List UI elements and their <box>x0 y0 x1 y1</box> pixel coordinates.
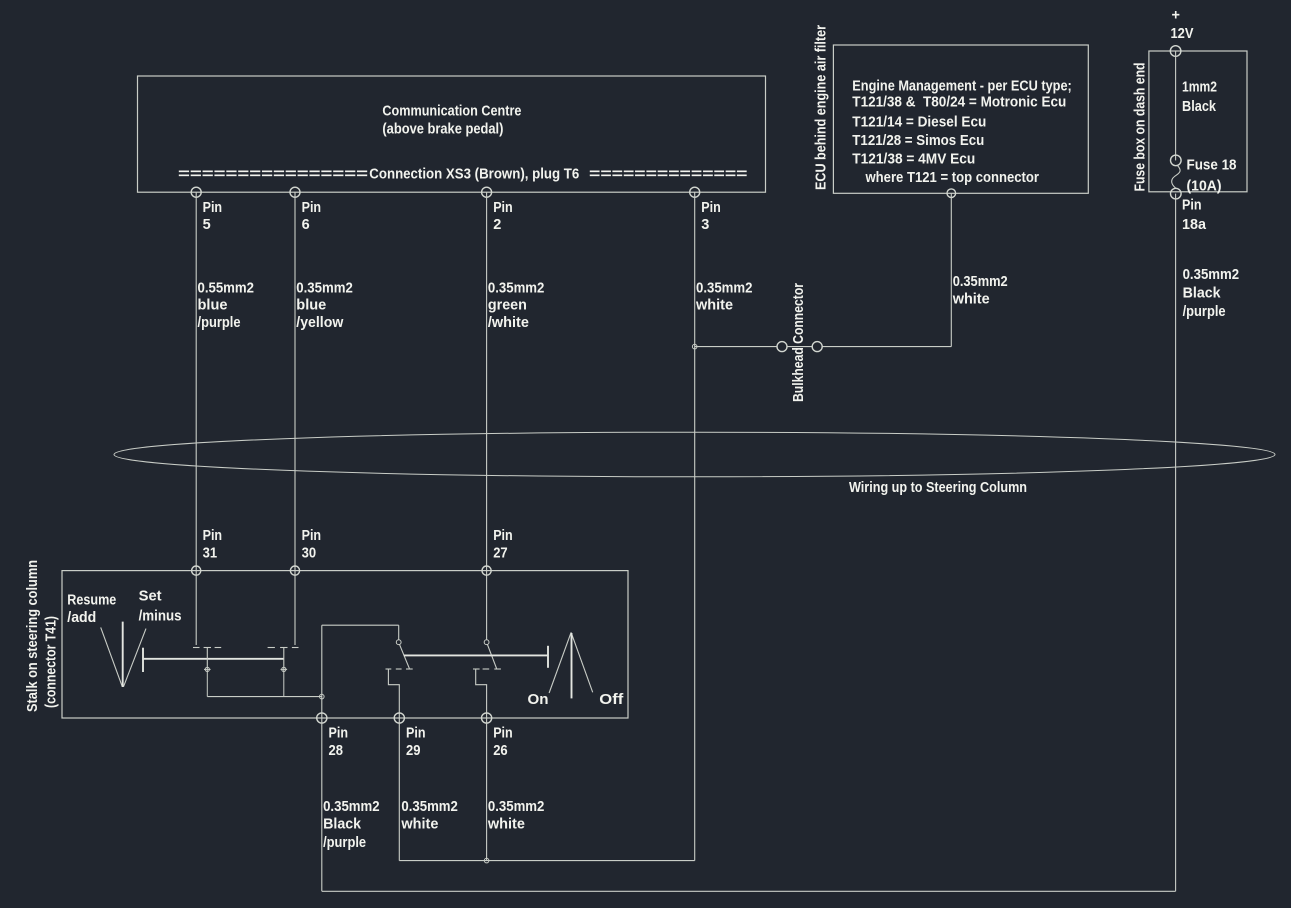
wire30 end cap <box>292 647 299 649</box>
bottom wire pin29 to pin3 <box>399 860 694 862</box>
pin 3 connector circle <box>690 187 700 197</box>
svg-text:/purple: /purple <box>323 835 366 851</box>
right switch plate end bar <box>547 646 549 668</box>
wire31 end cap <box>193 647 200 649</box>
svg-text:where T121 = top connector: where T121 = top connector <box>865 170 1040 186</box>
Communication Centre box <box>138 76 766 192</box>
svg-text:Off: Off <box>599 692 623 708</box>
svg-text:0.55mm2: 0.55mm2 <box>198 280 255 296</box>
svg-text:T121/28 = Simos Ecu: T121/28 = Simos Ecu <box>852 133 984 149</box>
On Off lever <box>549 632 571 693</box>
svg-text:T121/14 = Diesel Ecu: T121/14 = Diesel Ecu <box>852 115 986 131</box>
svg-text:Pin: Pin <box>493 726 513 742</box>
pin 29 connector circle <box>394 713 404 723</box>
svg-text:(connector T41): (connector T41) <box>44 616 60 708</box>
pin 26 connector circle <box>482 713 492 723</box>
12V supply connector circle <box>1170 46 1181 57</box>
wire pin26 down <box>486 718 488 861</box>
svg-text:/purple: /purple <box>198 315 241 331</box>
svg-text:On: On <box>528 692 549 708</box>
wire pin2 to pin27 <box>486 192 488 640</box>
contact post 2 cap <box>280 647 287 649</box>
hook wire to pin26 <box>476 669 487 718</box>
svg-text:Pin: Pin <box>329 726 349 742</box>
pin 6 connector circle <box>290 187 300 197</box>
svg-text:Pin: Pin <box>203 528 223 544</box>
right switch top wire <box>322 624 399 626</box>
svg-text:Pin: Pin <box>701 200 721 216</box>
svg-text:/white: /white <box>488 315 529 331</box>
junction node pin3/bulkhead <box>692 344 697 349</box>
svg-text:T121/38 = 4MV Ecu: T121/38 = 4MV Ecu <box>852 152 975 168</box>
contact post 2 <box>283 648 285 667</box>
pin 5 connector circle <box>191 187 201 197</box>
stalk switch box <box>62 571 628 718</box>
svg-text:Black: Black <box>323 817 362 833</box>
contact dash b <box>268 647 275 649</box>
pin 27 connector circle <box>482 566 491 575</box>
svg-text:5: 5 <box>203 217 211 233</box>
left switch plate end bar <box>142 648 144 672</box>
wire junction up to right switch <box>321 625 323 696</box>
right contact dash b2 <box>483 668 490 670</box>
pin 2 connector circle <box>482 187 492 197</box>
svg-text:blue: blue <box>296 298 326 314</box>
svg-text:green: green <box>488 298 527 314</box>
svg-text:Bulkhead Connector: Bulkhead Connector <box>791 283 807 402</box>
wire 12V to fuse <box>1175 51 1177 160</box>
svg-text:Black: Black <box>1183 286 1222 302</box>
fuse F18 symbol <box>1171 155 1182 166</box>
svg-text:Pin: Pin <box>493 200 513 216</box>
contact post 1 <box>206 648 208 667</box>
svg-text:26: 26 <box>493 743 508 759</box>
Fuse box on dash end rectangle <box>1149 51 1247 192</box>
svg-text:T121/38 & T80/24 = Motronic E: T121/38 & T80/24 = Motronic Ecu <box>852 95 1066 111</box>
junction node pin28 <box>320 694 325 699</box>
right contact dash a1 <box>386 668 392 670</box>
pivot circle 2 (pin 27) <box>484 640 489 645</box>
svg-text:/yellow: /yellow <box>296 315 344 331</box>
svg-text:/add: /add <box>67 610 96 626</box>
svg-text:2: 2 <box>493 217 501 233</box>
svg-text:/minus: /minus <box>139 608 182 624</box>
switch blade 2 <box>487 644 496 668</box>
svg-text:3: 3 <box>701 217 709 233</box>
svg-text:1mm2: 1mm2 <box>1182 79 1217 95</box>
svg-text:Pin: Pin <box>1182 198 1202 214</box>
EM box bottom connector circle <box>947 189 956 198</box>
contact circle 2 <box>281 667 288 697</box>
wire EM down to bulkhead <box>950 193 952 346</box>
svg-text:28: 28 <box>329 743 344 759</box>
right contact dash b1 <box>473 668 480 670</box>
svg-text:12V: 12V <box>1171 26 1194 42</box>
hook wire to pin29 <box>388 669 399 718</box>
svg-text:0.35mm2: 0.35mm2 <box>401 799 458 815</box>
svg-text:Wiring up to Steering Column: Wiring up to Steering Column <box>849 480 1027 496</box>
svg-text:Stalk on steering column: Stalk on steering column <box>25 560 41 712</box>
right contact dash b3 <box>494 668 501 670</box>
pin 28 connector circle <box>317 713 327 723</box>
svg-text:6: 6 <box>302 217 310 233</box>
svg-text:Resume: Resume <box>67 592 116 608</box>
svg-text:0.35mm2: 0.35mm2 <box>488 799 545 815</box>
svg-text:27: 27 <box>493 546 508 562</box>
svg-text:Pin: Pin <box>493 528 513 544</box>
bottom long wire pin28 to fuse <box>322 890 1176 892</box>
right contact dash a3 <box>406 668 413 670</box>
svg-text:0.35mm2: 0.35mm2 <box>323 799 380 815</box>
wiring loom ellipse <box>114 432 1275 477</box>
left stalk lever <box>101 627 123 686</box>
wire down to pivot 1 <box>398 625 400 640</box>
pin 30 connector circle <box>290 566 299 575</box>
wire pin29 down <box>398 718 400 861</box>
bulkhead horizontal wire <box>695 346 952 348</box>
svg-text:white: white <box>400 817 438 833</box>
pin 31 connector circle <box>192 566 201 575</box>
svg-text:0.35mm2: 0.35mm2 <box>696 280 753 296</box>
svg-text:/purple: /purple <box>1183 304 1226 320</box>
svg-text:0.35mm2: 0.35mm2 <box>296 280 353 296</box>
svg-text:Pin: Pin <box>302 528 322 544</box>
svg-text:white: white <box>487 817 525 833</box>
svg-text:white: white <box>952 291 990 307</box>
left switch plate <box>143 658 284 660</box>
contact circle 1 <box>204 667 211 697</box>
junction node pin26 <box>484 858 489 863</box>
svg-text:Engine Management - per ECU ty: Engine Management - per ECU type; <box>852 79 1072 95</box>
svg-text:29: 29 <box>406 743 421 759</box>
svg-text:Connection XS3 (Brown), plug T: Connection XS3 (Brown), plug T6 <box>369 167 579 183</box>
svg-text:Fuse 18: Fuse 18 <box>1187 157 1237 173</box>
svg-text:Black: Black <box>1182 99 1217 115</box>
svg-text:31: 31 <box>203 546 218 562</box>
svg-text:Pin: Pin <box>406 726 426 742</box>
svg-text:0.35mm2: 0.35mm2 <box>1183 267 1240 283</box>
svg-text:Pin: Pin <box>203 200 223 216</box>
wire pin5 to pin31 <box>195 192 197 645</box>
contact post 1 cap <box>204 647 211 649</box>
contact dash a <box>215 647 222 649</box>
bulkhead connector circle left <box>777 342 787 352</box>
svg-text:0.35mm2: 0.35mm2 <box>488 280 545 296</box>
wire pin28 down <box>321 718 323 891</box>
svg-text:(above brake pedal): (above brake pedal) <box>382 122 503 138</box>
svg-text:+: + <box>1172 8 1180 24</box>
svg-text:Fuse box on dash end: Fuse box on dash end <box>1133 63 1149 192</box>
wire pin6 to pin30 <box>294 192 296 645</box>
svg-text:0.35mm2: 0.35mm2 <box>953 274 1008 290</box>
wire pin3 down <box>694 192 696 860</box>
svg-text:white: white <box>695 298 733 314</box>
right contact dash a2 <box>396 668 402 670</box>
svg-text:blue: blue <box>198 298 228 314</box>
svg-text:==============: ============== <box>589 167 748 183</box>
wire junction down to pin28 <box>321 697 323 718</box>
svg-text:Pin: Pin <box>302 200 322 216</box>
svg-text:30: 30 <box>302 546 317 562</box>
svg-text:(10A): (10A) <box>1187 178 1222 194</box>
svg-text:ECU behind engine air filter: ECU behind engine air filter <box>814 25 830 190</box>
left switch bus wire <box>207 696 321 698</box>
wire fuse down <box>1175 194 1177 892</box>
svg-text:================: ================ <box>178 167 368 183</box>
switch blade 1 <box>400 644 410 668</box>
svg-text:18a: 18a <box>1182 217 1207 233</box>
svg-text:Set: Set <box>139 588 162 604</box>
Engine Management box <box>833 45 1088 193</box>
svg-text:Communication Centre: Communication Centre <box>382 104 521 120</box>
right switch plate <box>404 654 548 656</box>
bulkhead connector circle right <box>812 342 822 352</box>
pivot circle 1 <box>396 640 401 645</box>
